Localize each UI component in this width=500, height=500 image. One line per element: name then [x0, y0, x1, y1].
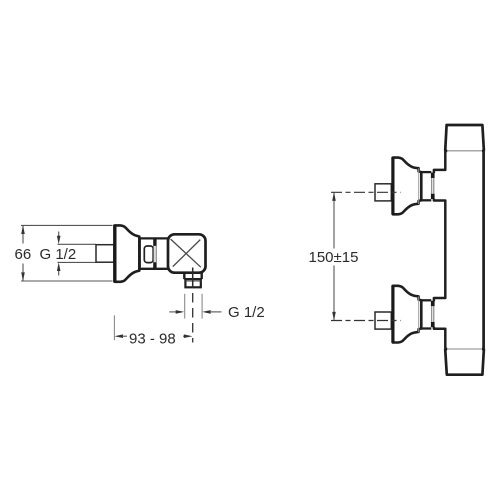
svg-text:66: 66	[15, 246, 32, 263]
svg-text:93 - 98: 93 - 98	[129, 331, 176, 348]
svg-text:G 1/2: G 1/2	[40, 246, 77, 263]
svg-text:150±15: 150±15	[309, 249, 359, 266]
svg-text:G 1/2: G 1/2	[228, 304, 265, 321]
